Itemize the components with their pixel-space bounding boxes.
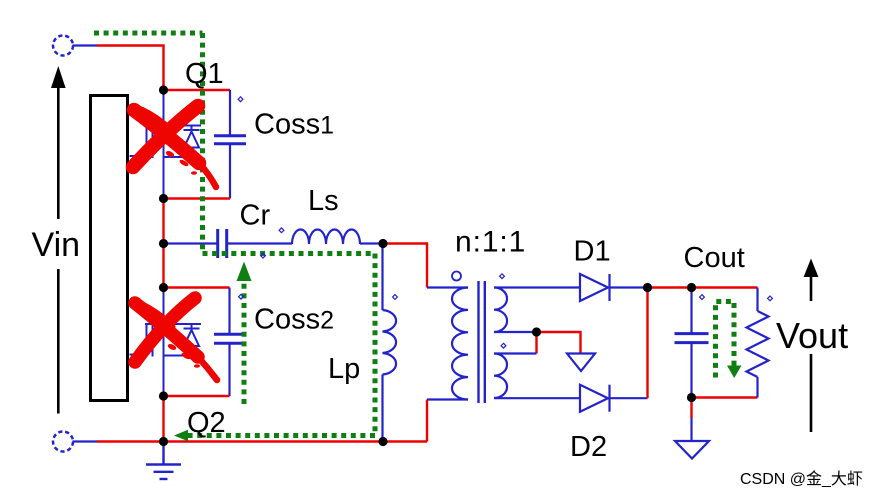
wire secondary top lead blue — [494, 286, 580, 288]
svg-text:Lp: Lp — [328, 353, 360, 385]
transformer secondary bottom winding — [494, 354, 507, 399]
wire output top rail red — [648, 286, 758, 288]
wire Coss2 bottom red — [164, 395, 230, 397]
capacitor Cr — [218, 229, 227, 258]
polarity diamond Ls — [279, 228, 284, 233]
polarity diamond secondary bottom — [501, 343, 506, 348]
polarity diamond secondary top — [500, 274, 505, 279]
svg-text:Cout: Cout — [684, 242, 745, 274]
green dotted resonant current loop — [94, 33, 375, 436]
green dotted Coss2 branch — [242, 281, 247, 404]
wire Cr left blue — [164, 242, 218, 244]
wire rail red Q1 source to Cr node — [162, 199, 164, 244]
transistor Q2 — [130, 288, 202, 397]
terminal top-left — [53, 36, 73, 56]
capacitor Coss1 — [214, 90, 246, 199]
green arrow down output — [727, 366, 742, 379]
node center tap — [532, 327, 541, 336]
wire Coss1 top red — [164, 89, 231, 91]
wire primary bottom lead blue — [427, 398, 468, 400]
svg-text:Q1: Q1 — [185, 58, 224, 90]
capacitor Cout — [675, 288, 709, 398]
svg-text:Cr: Cr — [240, 200, 271, 232]
resistor Rload Vout — [747, 288, 769, 398]
wire top blue stub — [73, 44, 98, 46]
wire transformer bottom red — [426, 400, 428, 442]
polarity diamond Coss2 — [239, 294, 244, 299]
svg-text:D2: D2 — [570, 431, 607, 463]
wire rail red Q2 source to bottom — [162, 396, 164, 442]
svg-text:Vin: Vin — [32, 226, 81, 264]
Vin arrow — [51, 66, 66, 414]
diode D1 — [580, 274, 610, 301]
node Q2 source — [159, 391, 168, 400]
transformer T1 primary winding — [452, 288, 468, 400]
wire D2 to D1 output red — [646, 288, 648, 399]
wire center tap to ground red — [537, 332, 581, 354]
red X over Q1 — [133, 106, 216, 187]
wire output ground stub blue — [690, 418, 692, 441]
node D1 out — [643, 283, 652, 292]
wire Cr to Ls blue — [227, 242, 292, 244]
wire primary top lead blue — [427, 286, 468, 288]
svg-text:Coss1: Coss1 — [254, 109, 334, 141]
svg-text:D1: D1 — [574, 236, 611, 268]
node Q1 drain — [159, 85, 168, 94]
Vout arrow — [804, 259, 819, 433]
wire D2 cathode blue — [610, 397, 648, 399]
polarity diamond Lp — [393, 295, 398, 300]
wire bottom rail red — [97, 440, 427, 442]
node bottom rail — [159, 437, 168, 446]
wire output bottom rail red — [692, 396, 758, 398]
node Ls Lp — [378, 239, 387, 248]
wire secondary lower-mid lead blue — [494, 352, 537, 354]
transistor Q1 — [130, 90, 202, 199]
polarity diamond Coss1 — [238, 97, 243, 102]
svg-text:Ls: Ls — [308, 185, 339, 217]
polarity diamond Cout — [700, 295, 705, 300]
polarity diamond Cr — [261, 253, 266, 258]
node Q1 source — [159, 194, 168, 203]
wire secondary bottom lead blue — [494, 397, 580, 399]
wire node to transformer top red — [383, 244, 427, 288]
svg-text:n:1:1: n:1:1 — [455, 226, 526, 259]
svg-text:CSDN @金_大虾: CSDN @金_大虾 — [740, 470, 863, 488]
wire Coss2 top red — [164, 286, 230, 288]
red splatter Q1 — [165, 150, 197, 175]
wire Ls to node blue — [360, 242, 383, 244]
Vin source rectangle — [91, 96, 128, 401]
transformer secondary top winding — [494, 288, 507, 333]
ground main — [146, 442, 181, 480]
wire top red to Q1 drain — [97, 46, 164, 91]
wire secondary mid lead blue — [494, 331, 537, 333]
wire center tap red — [535, 332, 537, 354]
green dotted output loop — [716, 302, 735, 378]
ground output — [675, 441, 709, 459]
wire bottom blue stub — [73, 440, 98, 442]
svg-text:Vout: Vout — [776, 315, 848, 356]
node Cout top — [687, 283, 696, 292]
capacitor Coss2 — [214, 288, 246, 397]
transformer core — [479, 281, 485, 403]
red X over Q2 — [135, 298, 217, 380]
wire output ground stub red — [690, 398, 692, 419]
node Lp bottom — [378, 437, 387, 446]
inductor Ls — [292, 229, 360, 244]
polarity circle primary — [452, 272, 461, 281]
terminal bottom-left — [53, 432, 73, 452]
red splatter Q2 — [167, 343, 200, 368]
wire rail red Cr node to Q2 drain — [162, 244, 164, 288]
svg-text:Coss2: Coss2 — [254, 304, 334, 336]
wire D1 cathode blue — [610, 286, 648, 288]
green arrow into Q2 node — [174, 430, 188, 442]
diode D2 — [580, 385, 610, 412]
node Cout bottom — [687, 393, 696, 402]
ground center-tap — [567, 354, 595, 372]
polarity diamond Vout resistor — [768, 296, 773, 301]
node Q2 drain — [159, 283, 168, 292]
wire Coss1 bottom red — [164, 197, 231, 199]
inductor Lp — [383, 244, 397, 442]
svg-text:Q2: Q2 — [187, 407, 226, 439]
node Cr tap — [159, 239, 168, 248]
green arrow up Coss2 — [237, 262, 252, 282]
